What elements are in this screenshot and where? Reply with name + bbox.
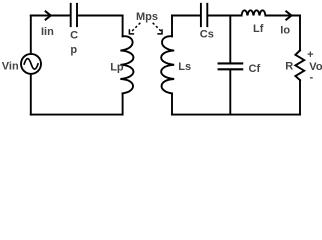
wire Cf top lead [229, 16, 231, 63]
inductor L3 Lf coil [242, 10, 266, 15]
svg-text:R: R [285, 61, 293, 73]
svg-text:+: + [307, 49, 313, 61]
svg-text:Iin: Iin [41, 26, 54, 38]
svg-text:Cf: Cf [249, 63, 261, 75]
svg-text:Ls: Ls [178, 61, 191, 73]
svg-text:Vin: Vin [2, 60, 19, 72]
capacitor C1 Cp plates [71, 4, 77, 26]
arrow Io head [286, 11, 291, 19]
inductor L1 Lp coil [120, 36, 133, 93]
capacitor C3 Cf plates [219, 63, 243, 69]
wire bottom-left [31, 114, 123, 116]
mutual coupling Mps right dashed arrow [153, 23, 163, 34]
wire Ls to Cs [172, 15, 200, 17]
wire Lf to top-right corner [266, 15, 301, 17]
wire left vertical upper [30, 16, 32, 54]
source V1 Vin circle [21, 54, 41, 74]
mutual coupling Mps left dashed arrow [129, 23, 140, 34]
wire Cs to Lf start (through Cf junction) [208, 15, 241, 17]
inductor L2 Ls coil [161, 36, 174, 93]
resistor R1 zigzag [295, 50, 304, 80]
wire Lp bottom lead [122, 93, 124, 114]
wire Cf bottom lead [229, 70, 231, 114]
wire Cp to Lp top corner [78, 15, 123, 17]
svg-text:Io: Io [280, 25, 290, 37]
wire Lp top lead [122, 16, 124, 37]
wire Ls bottom lead [171, 93, 173, 114]
wire right vertical upper (R top lead) [299, 16, 301, 51]
svg-text:C: C [70, 30, 78, 42]
source V1 sine wave [24, 59, 38, 70]
wire right vertical lower (R bottom lead) [299, 80, 301, 114]
svg-text:-: - [309, 72, 313, 84]
wire left vertical lower [30, 74, 32, 115]
svg-text:Lp: Lp [110, 61, 124, 73]
svg-text:Lf: Lf [253, 23, 264, 35]
wire top-left (Vin top to Cp left plate) [31, 15, 70, 17]
svg-text:p: p [70, 44, 77, 56]
wire bottom-right [172, 114, 300, 116]
capacitor C2 Cs plates [201, 4, 207, 26]
svg-text:Cs: Cs [200, 28, 214, 40]
svg-text:Mps: Mps [136, 11, 158, 23]
wire Ls top lead [171, 16, 173, 37]
arrow Iin head [46, 11, 51, 19]
